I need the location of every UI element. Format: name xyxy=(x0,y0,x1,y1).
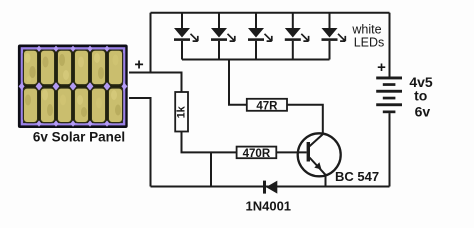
LED D5 xyxy=(322,13,346,60)
svg-text:6v: 6v xyxy=(415,104,431,120)
wire bottom rail xyxy=(151,186,390,188)
svg-text:to: to xyxy=(414,88,427,104)
resistor R3 1k xyxy=(175,92,188,132)
svg-text:white: white xyxy=(351,23,381,37)
wire 47R to collector xyxy=(287,105,323,135)
wire LED rail drop to 47R xyxy=(229,60,247,105)
wire LED cathode rail xyxy=(182,59,330,61)
wire 470R right to base xyxy=(276,151,306,153)
resistor R1 47R xyxy=(247,99,287,113)
wire left branch from panel plus up to top rail xyxy=(150,13,152,73)
svg-text:LEDs: LEDs xyxy=(354,36,385,50)
wire battery top lead xyxy=(389,13,391,77)
resistor R2 470R xyxy=(237,147,277,160)
svg-text:1N4001: 1N4001 xyxy=(246,199,292,214)
wire panel minus down to bottom rail xyxy=(129,98,151,187)
wire 1k bottom to 470R left xyxy=(182,131,237,152)
LED D4 xyxy=(285,13,309,60)
wire junction down to bottom rail xyxy=(210,152,212,186)
svg-text:470R: 470R xyxy=(243,148,271,160)
svg-text:+: + xyxy=(134,57,143,74)
svg-text:6v Solar Panel: 6v Solar Panel xyxy=(33,130,125,145)
battery B1 xyxy=(376,77,402,114)
transistor Q1 BC547 xyxy=(298,133,341,186)
wire panel plus to 1k top xyxy=(129,73,182,93)
svg-text:BC 547: BC 547 xyxy=(335,169,379,184)
LED D1 xyxy=(174,13,198,60)
svg-text:1k: 1k xyxy=(176,105,188,118)
wire battery bottom lead xyxy=(389,113,391,186)
solar panel PV1 xyxy=(18,45,128,129)
wire top rail xyxy=(151,12,390,14)
svg-text:47R: 47R xyxy=(256,100,278,112)
diode D6 1N4001 xyxy=(263,181,277,194)
LED D2 xyxy=(211,13,235,60)
svg-text:+: + xyxy=(377,59,386,76)
LED D3 xyxy=(248,13,272,60)
